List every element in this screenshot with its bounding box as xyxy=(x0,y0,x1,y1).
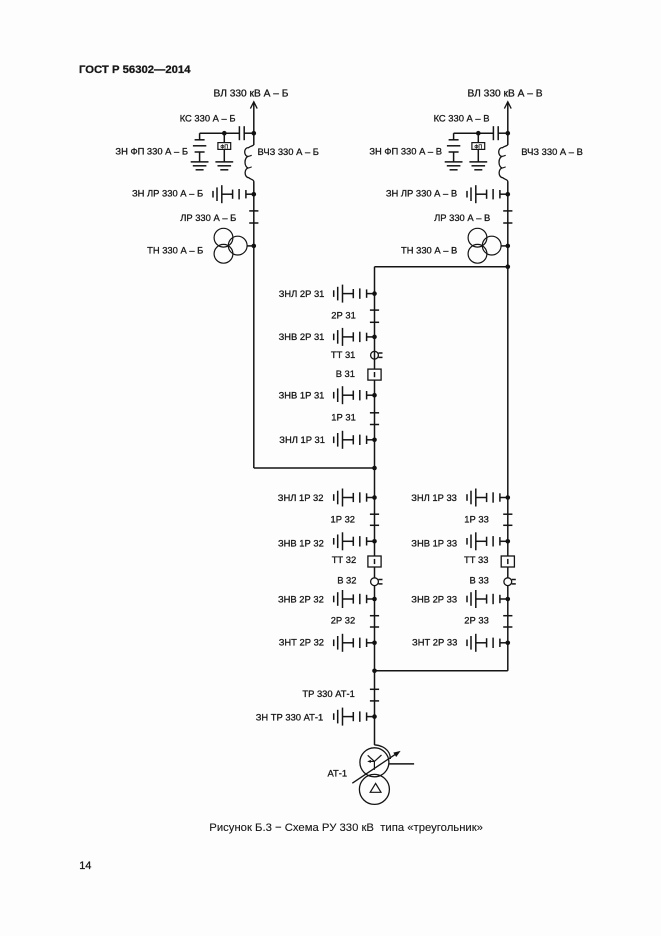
wire xyxy=(374,567,376,578)
wye symbol with neutral arrow xyxy=(368,755,375,761)
svg-text:ЛР 330 А – Б: ЛР 330 А – Б xyxy=(180,212,236,223)
ground left (ZN FP) xyxy=(445,161,463,163)
autotransformer AT-1 LV winding xyxy=(359,774,389,804)
svg-text:В 31: В 31 xyxy=(336,368,355,379)
svg-text:ВЧЗ 330 А – Б: ВЧЗ 330 А – Б xyxy=(258,146,319,157)
node bottom connector xyxy=(372,669,377,674)
wire right bus down xyxy=(507,246,509,267)
svg-text:2Р 31: 2Р 31 xyxy=(331,310,356,321)
svg-text:ЗН ФП 330 А – В: ЗН ФП 330 А – В xyxy=(369,146,442,157)
svg-text:ЗНВ 2Р 31: ЗНВ 2Р 31 xyxy=(279,331,325,342)
disconnector LR 330 A-Б xyxy=(249,210,258,212)
svg-text:ЗН ЛР 330 А – Б: ЗН ЛР 330 А – Б xyxy=(132,188,203,199)
wire KS branch xyxy=(200,132,240,134)
svg-text:ЗНТ 2Р 33: ЗНТ 2Р 33 xyxy=(412,637,457,648)
wire left-to-middle connector xyxy=(254,467,375,469)
filter FP box xyxy=(477,133,479,142)
wire bus A-Б upper xyxy=(253,109,255,145)
wire top connector middle-right xyxy=(375,266,508,268)
current transformer TT 31 xyxy=(371,351,379,359)
disconnector 1R 32 xyxy=(370,513,379,515)
node ZNL 1R 32 xyxy=(372,495,377,500)
disconnector 1R 31 xyxy=(370,412,379,414)
current transformer box TT 32 xyxy=(368,556,381,567)
node ZNV 2R 31 xyxy=(372,335,377,340)
coupling capacitor KS 330 A-В xyxy=(492,126,494,140)
svg-text:2Р 32: 2Р 32 xyxy=(331,615,356,626)
tap-changer diagonal arrow xyxy=(352,755,395,784)
wire branch 33 lower xyxy=(507,586,509,671)
wire bus xyxy=(507,182,509,211)
svg-text:КС 330 А – Б: КС 330 А – Б xyxy=(180,112,236,123)
svg-text:ТТ 32: ТТ 32 xyxy=(332,554,357,565)
earthing switch ZNV 1R 33 xyxy=(500,540,508,542)
wire branch 32 lower xyxy=(374,586,376,671)
earthing switch ZN LR 330 A-Б xyxy=(246,193,254,195)
overhead line arrow A-Б xyxy=(253,102,255,109)
svg-text:ГОСТ Р 56302—2014: ГОСТ Р 56302—2014 xyxy=(79,64,191,76)
capacitor stack (ZN FP) xyxy=(453,133,455,140)
svg-text:2Р 33: 2Р 33 xyxy=(464,615,489,626)
node top connector right xyxy=(506,264,511,269)
earthing switch ZNT 2R 33 xyxy=(500,642,508,644)
earthing switch ZNV 1R 32 xyxy=(367,540,375,542)
earthing switch ZNV 2R 32 xyxy=(367,598,375,600)
node KS junction xyxy=(252,131,257,136)
svg-text:14: 14 xyxy=(79,860,91,872)
svg-text:ЗН ЛР 330 А – В: ЗН ЛР 330 А – В xyxy=(386,188,457,199)
node ZN LR xyxy=(506,192,511,197)
node ZNV 1R 33 xyxy=(506,539,511,544)
earthing switch ZN TR 330 AT-1 xyxy=(367,716,375,718)
MV tap wire xyxy=(389,763,415,765)
ground left (ZN FP) xyxy=(191,161,209,163)
circuit breaker V 31 xyxy=(368,369,381,380)
wire KS branch xyxy=(454,132,494,134)
disconnector 2R 32 xyxy=(370,615,379,617)
disconnector 2R 33 xyxy=(503,615,512,617)
earthing switch ZNV 1R 31 xyxy=(367,394,375,396)
svg-text:ЗНВ 1Р 32: ЗНВ 1Р 32 xyxy=(278,537,324,548)
node ZNV 1R 32 xyxy=(372,539,377,544)
svg-text:ЗНЛ 2Р 31: ЗНЛ 2Р 31 xyxy=(279,288,325,299)
node ZNV 1R 31 xyxy=(372,393,377,398)
wire bus xyxy=(253,182,255,211)
svg-text:ТТ 31: ТТ 31 xyxy=(331,349,356,360)
capacitor stack (ZN FP) xyxy=(199,133,201,140)
ground FP xyxy=(215,161,233,163)
svg-text:ЗН ТР 330 АТ-1: ЗН ТР 330 АТ-1 xyxy=(256,711,323,722)
svg-text:ЗНЛ 1Р 33: ЗНЛ 1Р 33 xyxy=(411,492,457,503)
delta symbol xyxy=(370,783,381,792)
earthing switch ZNT 2R 32 xyxy=(367,642,375,644)
node triangle corner A xyxy=(372,466,377,471)
HF line trap VChZ 330 A-Б xyxy=(245,144,254,181)
wire bus A-В upper xyxy=(507,109,509,145)
wire left bus down to corner xyxy=(253,246,255,468)
disconnector 1R 33 xyxy=(503,513,512,515)
node TN xyxy=(252,244,257,249)
svg-text:ЗНЛ 1Р 32: ЗНЛ 1Р 32 xyxy=(278,492,324,503)
earthing switch ZNV 2R 31 xyxy=(367,336,375,338)
svg-text:ВЛ 330 кВ А – Б: ВЛ 330 кВ А – Б xyxy=(214,88,289,99)
svg-text:Рисунок Б.3 − Схема РУ 330 кВ: Рисунок Б.3 − Схема РУ 330 кВ типа «треу… xyxy=(209,822,483,834)
svg-text:ЗНВ 1Р 33: ЗНВ 1Р 33 xyxy=(411,537,457,548)
svg-text:В 33: В 33 xyxy=(470,574,489,585)
overhead line arrow A-В xyxy=(507,102,509,109)
wire xyxy=(507,567,509,578)
wire bottom connector xyxy=(375,670,508,672)
earthing switch ZNL 1R 33 xyxy=(500,497,508,499)
disconnector LR 330 A-В xyxy=(503,210,512,212)
earthing switch ZNL 1R 32 xyxy=(367,497,375,499)
svg-text:ЗНВ 1Р 31: ЗНВ 1Р 31 xyxy=(279,390,325,401)
svg-text:ВЛ 330 кВ А – В: ВЛ 330 кВ А – В xyxy=(467,88,542,99)
node KS junction xyxy=(506,131,511,136)
disconnector TR 330 AT-1 xyxy=(370,688,379,690)
wire branch 31 xyxy=(374,267,376,370)
node TN xyxy=(506,244,511,249)
node ZNL 1R 33 xyxy=(506,495,511,500)
disconnector 2R 31 xyxy=(370,309,379,311)
svg-text:1Р 33: 1Р 33 xyxy=(464,514,489,525)
svg-text:ЗН ФП 330 А – Б: ЗН ФП 330 А – Б xyxy=(115,146,188,157)
node FP branch xyxy=(476,131,481,136)
svg-text:1Р 32: 1Р 32 xyxy=(331,514,356,525)
autotransformer AT-1 HV winding xyxy=(360,748,389,777)
node ZNT 2R 33 xyxy=(506,641,511,646)
wire branch 33 xyxy=(507,267,509,556)
svg-text:ЗНЛ 1Р 31: ЗНЛ 1Р 31 xyxy=(279,434,325,445)
earthing switch ZN LR 330 A-В xyxy=(500,193,508,195)
wire bus xyxy=(507,211,509,246)
svg-text:ТН 330 А – В: ТН 330 А – В xyxy=(401,244,457,255)
wire bus xyxy=(253,211,255,246)
svg-text:КС 330 А – В: КС 330 А – В xyxy=(434,112,490,123)
node FP branch xyxy=(222,131,227,136)
autotransformer series-winding arc xyxy=(374,745,390,759)
node ZNL 2R 31 xyxy=(372,291,377,296)
svg-text:ВЧЗ 330 А – В: ВЧЗ 330 А – В xyxy=(521,146,583,157)
svg-text:ТТ 33: ТТ 33 xyxy=(464,554,489,565)
svg-text:ЗНВ 2Р 33: ЗНВ 2Р 33 xyxy=(411,593,457,604)
earthing switch ZNL 1R 31 xyxy=(367,439,375,441)
svg-text:ТР 330 АТ-1: ТР 330 АТ-1 xyxy=(302,688,354,699)
circuit breaker V 32 xyxy=(371,578,379,586)
svg-text:ЗНВ 2Р 32: ЗНВ 2Р 32 xyxy=(278,593,324,604)
voltage transformer TN 330 A-Б xyxy=(214,228,233,247)
node ZN LR xyxy=(252,192,257,197)
ground FP xyxy=(469,161,487,163)
node ZN TR xyxy=(372,714,377,719)
svg-text:В 32: В 32 xyxy=(337,574,356,585)
filter FP box xyxy=(223,133,225,142)
circuit breaker V 33 xyxy=(504,578,512,586)
node ZNL 1R 31 xyxy=(372,438,377,443)
svg-text:ЛР 330 А – В: ЛР 330 А – В xyxy=(434,212,490,223)
svg-text:ЗНТ 2Р 32: ЗНТ 2Р 32 xyxy=(279,637,324,648)
HF line trap VChZ 330 A-В xyxy=(499,144,508,181)
current transformer box TT 33 xyxy=(501,556,514,567)
voltage transformer TN 330 A-В xyxy=(468,228,487,247)
svg-text:ТН 330 А – Б: ТН 330 А – Б xyxy=(147,244,203,255)
wire branch 32 xyxy=(374,468,376,556)
earthing switch ZNV 2R 33 xyxy=(500,598,508,600)
wire to transformer xyxy=(374,671,376,745)
node ZNV 2R 32 xyxy=(372,597,377,602)
wire branch 31 lower xyxy=(374,380,376,468)
svg-text:АТ-1: АТ-1 xyxy=(328,768,348,779)
coupling capacitor KS 330 A-Б xyxy=(238,126,240,140)
svg-text:1Р 31: 1Р 31 xyxy=(331,412,356,423)
node ZNT 2R 32 xyxy=(372,641,377,646)
node ZNV 2R 33 xyxy=(506,597,511,602)
earthing switch ZNL 2R 31 xyxy=(367,293,375,295)
